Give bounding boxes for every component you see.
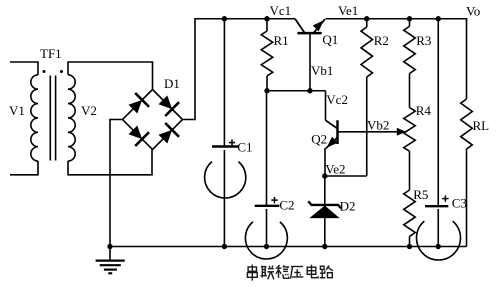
resistor R3 <box>404 19 432 74</box>
svg-text:V2: V2 <box>81 103 97 118</box>
junction dot ground <box>107 244 112 249</box>
transistor Q2 <box>311 120 338 148</box>
winding V2 secondary <box>68 75 97 161</box>
svg-text:Q2: Q2 <box>311 132 327 147</box>
polarity dot secondary <box>60 70 63 73</box>
svg-text:R4: R4 <box>416 103 432 118</box>
junction dot D2 bottom <box>322 244 327 249</box>
svg-text:V1: V1 <box>9 103 25 118</box>
junction dot R5 bottom <box>407 244 412 249</box>
winding V1 primary <box>9 75 38 161</box>
junction dot C3 top <box>436 16 441 21</box>
junction dot Vb1-R1 <box>264 88 269 93</box>
svg-text:Ve1: Ve1 <box>338 3 358 18</box>
junction dot Vb1-base <box>307 88 312 93</box>
wire bridge positive up to Vc1 rail <box>183 19 296 120</box>
resistor R2 <box>361 19 389 176</box>
junction dot C2 bottom <box>264 244 269 249</box>
svg-text:R5: R5 <box>413 187 428 202</box>
ground <box>96 247 125 274</box>
wire Vb1 node horizontal <box>267 90 326 92</box>
junction dot C1 bottom <box>222 244 227 249</box>
svg-text:C3: C3 <box>452 196 467 211</box>
transformer TF1 <box>40 46 62 61</box>
junction dot C3 bottom <box>436 244 441 249</box>
svg-text:C1: C1 <box>237 140 252 155</box>
svg-text:D1: D1 <box>164 76 180 91</box>
svg-text:RL: RL <box>473 118 490 133</box>
junction dot R3 top <box>407 16 412 21</box>
wire Ve2 to R2 bottom <box>325 175 367 177</box>
capacitor C1 <box>205 19 253 247</box>
wire Q2 emitter down to Ve2 node <box>325 148 346 177</box>
svg-text:Vo: Vo <box>466 4 480 19</box>
svg-text:R3: R3 <box>416 33 431 48</box>
wire primary top lead <box>10 62 38 75</box>
zener diode D2 <box>308 176 355 247</box>
wire R3 to R4 <box>409 74 411 108</box>
svg-text:Vb2: Vb2 <box>367 118 389 133</box>
transformer core <box>50 76 55 161</box>
wire primary bottom lead <box>10 161 38 175</box>
svg-text:Q1: Q1 <box>322 32 338 47</box>
wire ground rail <box>110 246 467 248</box>
wire secondary bottom to bridge AC bottom <box>68 150 152 175</box>
svg-text:R1: R1 <box>274 33 289 48</box>
resistor RL <box>461 99 489 247</box>
polarity dot primary <box>43 70 46 73</box>
svg-text:D2: D2 <box>340 199 356 214</box>
resistor R5 <box>404 187 429 247</box>
capacitor C3 <box>417 19 467 260</box>
wire R4 to R5 <box>409 151 411 190</box>
wire Q1 base Vb1 <box>310 33 333 91</box>
junction dot C1 top <box>222 16 227 21</box>
svg-text:Vb1: Vb1 <box>311 63 333 78</box>
capacitor C2 <box>245 91 294 259</box>
wire secondary top to bridge AC top <box>68 62 153 90</box>
wire bridge negative to ground rail <box>110 120 123 247</box>
potentiometer R4 <box>404 103 432 151</box>
junction dot R1 top <box>264 16 269 21</box>
junction dot Ve2 <box>322 173 327 178</box>
svg-text:Ve2: Ve2 <box>325 162 345 177</box>
svg-text:Vc2: Vc2 <box>326 92 348 107</box>
bridge rectifier D1 <box>123 76 183 150</box>
caption text 串联稳压电路 <box>247 265 333 281</box>
svg-text:Vc1: Vc1 <box>270 3 292 18</box>
resistor R1 <box>261 19 288 90</box>
svg-text:C2: C2 <box>279 198 294 213</box>
transistor Q1 <box>295 19 338 47</box>
wire Q2 base Vb2 to R4 wiper <box>338 118 406 136</box>
junction dot R2 top <box>364 16 369 21</box>
svg-text:R2: R2 <box>374 33 389 48</box>
wire Ve1 output rail <box>326 19 467 99</box>
wire Vc2 from Vb1 node down to Q2 collector <box>326 91 348 121</box>
svg-text:TF1: TF1 <box>40 46 62 61</box>
